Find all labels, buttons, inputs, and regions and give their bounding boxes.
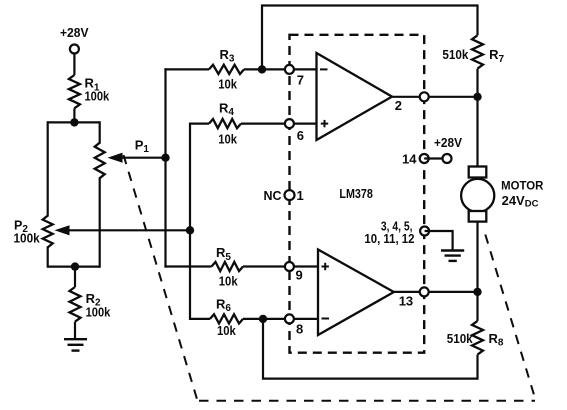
- svg-text:6: 6: [297, 128, 304, 143]
- label 24VDC: [502, 193, 539, 210]
- node A junction: [70, 118, 78, 126]
- label R8 value 510k: [447, 331, 474, 346]
- svg-text:1: 1: [297, 188, 304, 203]
- label pin 6: [297, 128, 304, 143]
- label P1: [135, 138, 150, 156]
- pin 14 circle: [420, 154, 429, 163]
- svg-text:14: 14: [402, 152, 417, 167]
- svg-text:MOTOR: MOTOR: [501, 179, 543, 193]
- svg-text:7: 7: [297, 73, 304, 88]
- op-amp U1A minus input: [320, 68, 328, 70]
- pin 2 circle: [420, 92, 429, 101]
- wire op-amp A output: [392, 96, 478, 98]
- svg-text:10k: 10k: [219, 274, 238, 289]
- label R3 value 10k: [218, 77, 237, 92]
- motor M1 bottom brush: [469, 211, 487, 222]
- svg-text:10k: 10k: [218, 132, 237, 147]
- ground (R2): [64, 339, 87, 350]
- wire top feedback (R3 node to R7): [262, 6, 478, 70]
- ground (LM378): [441, 251, 464, 261]
- wire pin 14 to supply: [424, 157, 447, 159]
- svg-text:+28V: +28V: [434, 135, 462, 150]
- wire bus 1 (P1 wiper to R3/R5): [164, 68, 166, 267]
- mechanical link dashed (right diagonal): [485, 235, 536, 401]
- node P2-wiper junction: [186, 226, 194, 234]
- wire pot box right lower: [99, 177, 101, 268]
- wire R4 to pin 6: [241, 122, 289, 124]
- wire R8 to bottom feedback: [476, 355, 478, 380]
- label R4: [219, 101, 234, 119]
- resistor R2: [70, 287, 81, 322]
- label R7 value 510k: [442, 47, 469, 62]
- label LM378: [339, 186, 373, 201]
- label pin 1: [297, 188, 304, 203]
- wire pin6 to op-amp: [289, 122, 316, 124]
- label R2 value 100k: [86, 304, 111, 319]
- label NC: [264, 188, 283, 203]
- resistor R7: [472, 35, 483, 68]
- wire supply to R1: [73, 53, 75, 75]
- svg-text:13: 13: [399, 293, 413, 308]
- +28V supply terminal: [70, 45, 79, 54]
- label R3: [220, 47, 235, 65]
- pin 7 circle: [285, 65, 294, 74]
- svg-text:8: 8: [296, 321, 303, 336]
- svg-text:10, 11, 12: 10, 11, 12: [364, 231, 414, 246]
- svg-text:100k: 100k: [85, 88, 110, 103]
- node B junction: [71, 262, 79, 270]
- wire pin8 to op-amp: [290, 318, 318, 320]
- node R6-feedback junction: [259, 315, 267, 323]
- wire R6 to pin 8: [243, 318, 290, 320]
- svg-text:510k: 510k: [447, 331, 474, 346]
- wire P2 wiper: [66, 229, 190, 231]
- label R7: [489, 47, 504, 65]
- resistor R6: [210, 314, 243, 323]
- label P2: [14, 218, 28, 235]
- label R4 value 10k: [218, 132, 237, 147]
- motor M1 body: [461, 179, 494, 212]
- label R5: [216, 245, 231, 263]
- wire pin7 to op-amp: [289, 68, 316, 70]
- svg-text:NC: NC: [264, 188, 283, 203]
- label pin 9: [296, 267, 303, 282]
- label pin 14: [402, 152, 417, 167]
- resistor R8: [472, 321, 483, 355]
- label R6 value 10k: [217, 323, 236, 338]
- svg-text:100k: 100k: [14, 231, 41, 246]
- wire P1 wiper: [119, 157, 166, 159]
- wire R1 to node A: [73, 108, 75, 124]
- label R5 value 10k: [219, 274, 238, 289]
- pins 3-4-5-10-11-12 circle: [420, 227, 429, 236]
- label MOTOR: [501, 179, 543, 193]
- pin 9 circle: [285, 262, 294, 271]
- wire pot box left upper: [47, 121, 49, 216]
- motor M1 top brush: [469, 167, 487, 178]
- label pins 3, 4, 5,: [381, 219, 413, 234]
- node P1-wiper junction: [161, 154, 169, 162]
- label +28V (pin 14): [434, 135, 462, 150]
- wire pot box top: [48, 121, 100, 123]
- wire R3 to pin 7: [244, 68, 289, 70]
- wire output node to motor: [476, 97, 478, 167]
- mechanical link dashed (left diagonal): [124, 155, 198, 401]
- svg-text:10k: 10k: [217, 323, 236, 338]
- op-amp U1B: [318, 250, 394, 336]
- node output A junction: [473, 93, 481, 101]
- svg-text:2: 2: [395, 98, 402, 113]
- label R1 value 100k: [85, 88, 110, 103]
- wire R7 to output node: [476, 69, 478, 97]
- wire motor to output node B: [476, 222, 478, 292]
- svg-text:LM378: LM378: [339, 186, 373, 201]
- node output B junction: [473, 288, 481, 296]
- wire bus2 to R4: [189, 122, 209, 124]
- wire bus 2 (P2 wiper to R4/R6): [189, 123, 191, 321]
- pin 1 NC circle: [285, 190, 295, 200]
- P2 wiper arrow: [55, 225, 70, 235]
- pin 6 circle: [285, 119, 294, 128]
- wire bus1 to R5: [164, 265, 211, 267]
- wire pot box left lower: [47, 246, 49, 267]
- svg-text:10k: 10k: [218, 77, 237, 92]
- pin 8 circle: [285, 314, 294, 323]
- wire bus2 to R6: [189, 318, 210, 320]
- pin 13 circle: [420, 287, 429, 296]
- op-amp U1B minus input: [322, 318, 330, 320]
- wire output node B to R8: [476, 292, 478, 321]
- wire bottom feedback: [263, 319, 478, 379]
- op-amp U1A: [317, 53, 393, 140]
- P1 wiper arrow: [108, 153, 123, 163]
- wire pot box bottom: [48, 266, 100, 268]
- label R8: [489, 331, 504, 349]
- label pin 8: [296, 321, 303, 336]
- svg-text:9: 9: [296, 267, 303, 282]
- label P2 value 100k: [14, 231, 41, 246]
- resistor R3: [209, 65, 244, 74]
- svg-text:100k: 100k: [86, 304, 111, 319]
- label +28V (supply): [60, 25, 89, 40]
- svg-text:510k: 510k: [442, 47, 469, 62]
- mechanical link dashed (bottom): [199, 400, 535, 402]
- wire node B to R2: [74, 267, 76, 287]
- node R3-feedback junction: [258, 65, 266, 73]
- label pins 10, 11, 12: [364, 231, 414, 246]
- wire R5 to pin 9: [243, 265, 290, 267]
- svg-text:+28V: +28V: [60, 25, 89, 40]
- wire pins to ground: [425, 231, 453, 250]
- resistor R5: [212, 262, 244, 271]
- label pin 7: [297, 73, 304, 88]
- potentiometer P1 element: [95, 143, 105, 179]
- resistor R1: [69, 75, 80, 108]
- label R6: [216, 297, 231, 315]
- op-amp U1B plus input: [322, 263, 329, 270]
- LM378 package outline (dashed): [290, 35, 425, 353]
- op-amp U1A plus input: [321, 120, 328, 127]
- label pin 2: [395, 98, 402, 113]
- wire pin9 to op-amp: [290, 265, 318, 267]
- label R1: [85, 76, 100, 94]
- label R2: [86, 291, 101, 309]
- wire pot box right upper: [99, 121, 101, 143]
- label pin 13: [399, 293, 413, 308]
- potentiometer P2 element: [43, 216, 53, 248]
- resistor R4: [209, 119, 241, 128]
- wire op-amp B output: [394, 291, 478, 293]
- wire R2 to ground: [74, 322, 76, 340]
- +28V terminal (pin 14): [443, 154, 452, 163]
- wire bus1 to R3: [164, 68, 209, 70]
